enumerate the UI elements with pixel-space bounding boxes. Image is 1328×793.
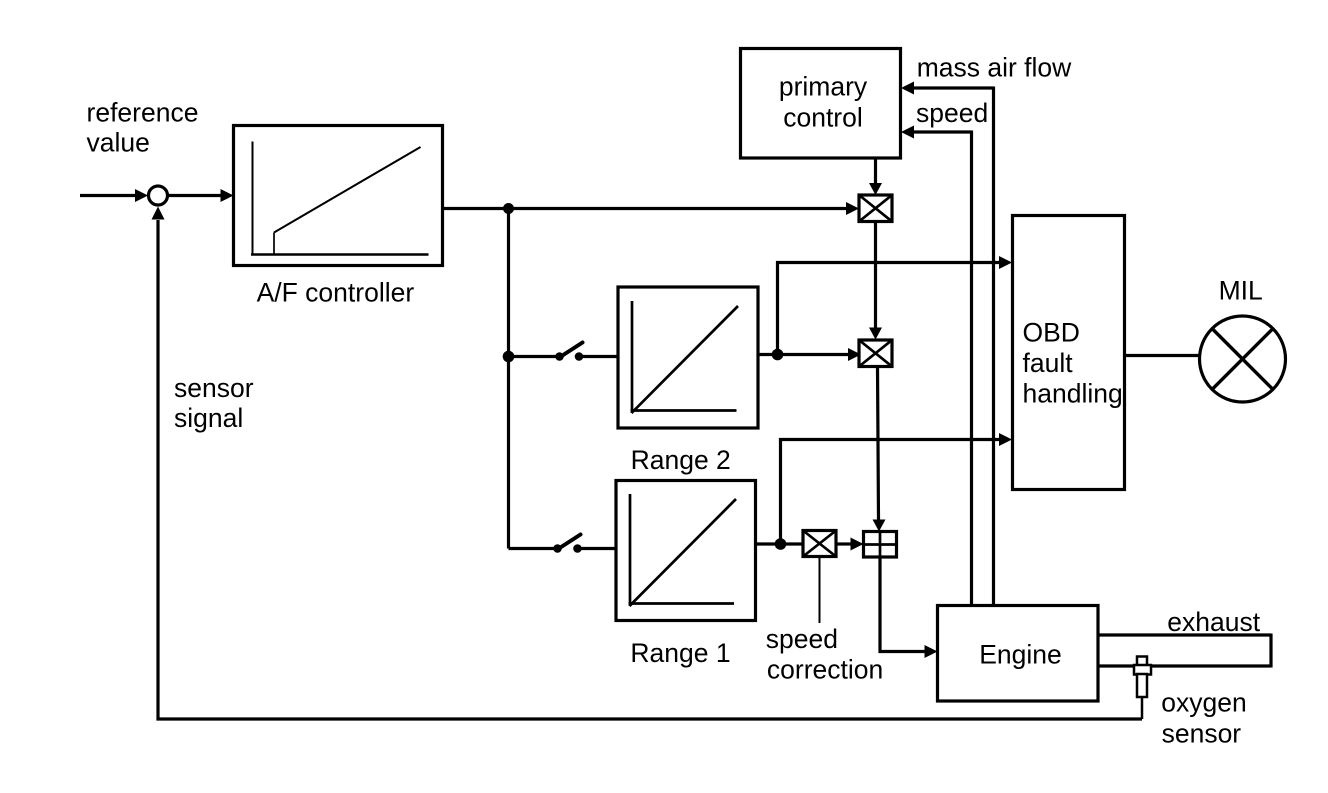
- wire: stem to speed correction label: [819, 557, 821, 624]
- label: primary control: [779, 71, 868, 132]
- MIL lamp: [1200, 316, 1286, 402]
- svg-text:sensor: sensor: [174, 373, 254, 403]
- block: A/F controller: [234, 126, 443, 266]
- svg-text:reference: reference: [87, 97, 199, 127]
- svg-text:sensor: sensor: [1162, 719, 1242, 749]
- wire: sensor signal feedback to summing junction: [152, 207, 1143, 720]
- block: primary control: [741, 49, 901, 159]
- wire: branch to switch 1: [509, 355, 557, 358]
- svg-text:mass air flow: mass air flow: [917, 52, 1072, 82]
- switch 2 (range 1 enable): [553, 535, 582, 553]
- svg-text:value: value: [87, 127, 150, 157]
- wire: oxygen sensor lead: [1141, 697, 1144, 719]
- svg-text:fault: fault: [1023, 348, 1074, 378]
- summing junction: [149, 186, 168, 205]
- svg-text:speed: speed: [766, 624, 838, 654]
- label: sensor signal: [174, 373, 254, 433]
- svg-text:handling: handling: [1023, 378, 1123, 408]
- A/F controller graph: [251, 142, 429, 256]
- switch 1 (range 2 enable): [555, 343, 583, 361]
- svg-text:OBD: OBD: [1023, 318, 1080, 348]
- wire: range 2 output up to OBD (upper): [778, 263, 1000, 355]
- adder (summing block): [864, 532, 897, 558]
- wire: A/F controller output to multiplier 1: [443, 202, 860, 215]
- svg-text:MIL: MIL: [1219, 276, 1263, 306]
- wire: switch 2 to Range 1 box: [580, 547, 616, 550]
- junction dot: range 2 branch: [503, 351, 515, 363]
- multiplier M3 speed correction: [803, 531, 836, 557]
- svg-text:A/F controller: A/F controller: [257, 278, 415, 308]
- wire: speed correction multiplier to adder: [836, 538, 864, 551]
- wire: mass air flow line (arrow into primary control, down to engine): [901, 82, 994, 607]
- svg-text:exhaust: exhaust: [1167, 607, 1260, 637]
- block: Range 2: [618, 287, 758, 428]
- label: speed correction: [766, 624, 883, 685]
- Range 2 graph: [631, 301, 739, 413]
- wire: adder output to Engine: [880, 557, 938, 658]
- junction dot: trunk split on A/F output: [503, 203, 514, 214]
- wire: summing junction to A/F controller: [169, 189, 234, 202]
- wire: multiplier 1 to multiplier 2: [869, 222, 882, 340]
- svg-text:Range 1: Range 1: [630, 638, 730, 668]
- svg-text:Range 2: Range 2: [631, 445, 731, 475]
- wire: range 1 output up to OBD (lower): [781, 440, 1000, 545]
- wire: trunk vertical: [507, 209, 510, 549]
- svg-text:oxygen: oxygen: [1161, 688, 1246, 718]
- wire: switch 1 to Range 2 box: [582, 355, 618, 358]
- svg-text:Engine: Engine: [979, 640, 1062, 670]
- multiplier M1: [859, 195, 892, 222]
- wire: OBD to MIL: [1125, 354, 1201, 357]
- junction dot: range 2 output: [772, 349, 784, 361]
- svg-text:correction: correction: [767, 654, 883, 684]
- junction dot: range 1 output: [775, 538, 787, 550]
- label: oxygen sensor: [1161, 688, 1246, 749]
- wire: speed line (arrow into primary control, down to engine): [901, 126, 972, 607]
- label: reference value: [87, 97, 199, 157]
- wire: reference value input arrow: [80, 189, 148, 202]
- block: Engine: [938, 606, 1099, 702]
- label: OBD fault handling: [1023, 318, 1123, 409]
- svg-text:control: control: [783, 102, 863, 132]
- wire: multiplier 2 down to adder: [873, 367, 886, 532]
- wire: Range 1 output to speed correction multiplier: [756, 542, 804, 545]
- wire: Range 2 output to multiplier 2: [758, 348, 861, 361]
- oxygen sensor symbol: [1134, 657, 1151, 698]
- multiplier M2: [859, 340, 892, 367]
- svg-text:signal: signal: [174, 403, 243, 433]
- wire: primary control output down to multiplier 1: [869, 158, 882, 195]
- block: OBD fault handling: [1013, 216, 1125, 490]
- exhaust pipe: [1098, 634, 1271, 668]
- block: Range 1: [616, 481, 756, 621]
- svg-text:primary: primary: [779, 71, 868, 101]
- svg-text:speed: speed: [916, 98, 988, 128]
- Range 1 graph: [629, 494, 737, 606]
- wire: trunk elbow to switch 2: [509, 547, 555, 550]
